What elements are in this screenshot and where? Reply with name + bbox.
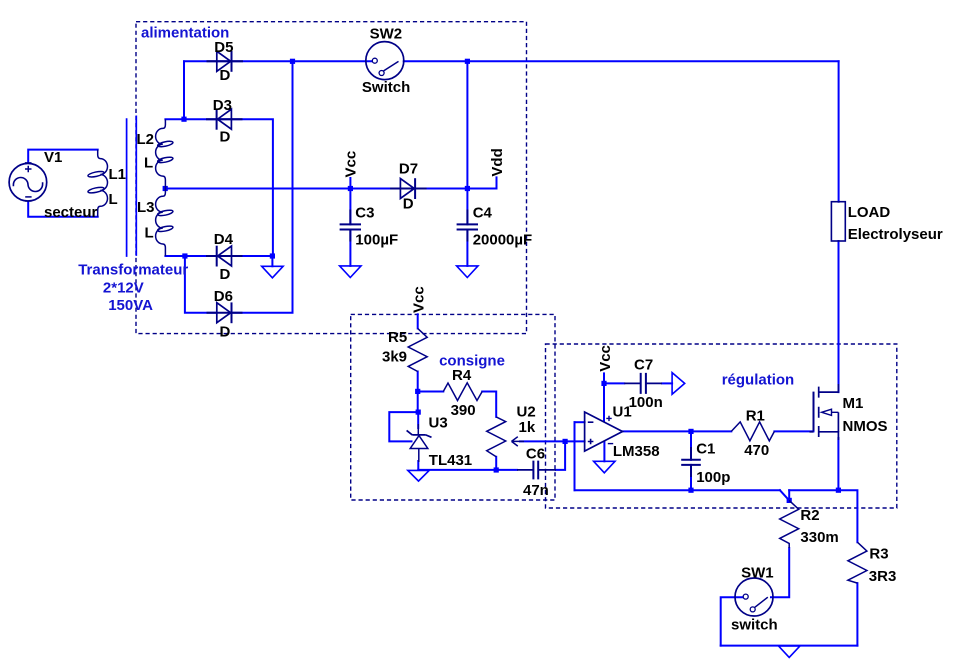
wire R5 bottom to node	[417, 372, 419, 392]
ground below U1	[594, 461, 615, 473]
svg-text:L3: L3	[137, 199, 155, 216]
wire wiper to plus input	[520, 440, 585, 442]
junction D3/D4 ground node	[270, 253, 275, 258]
capacitor C1	[681, 447, 701, 477]
svg-text:L: L	[109, 191, 118, 208]
wire C6 right	[556, 441, 565, 470]
wire LOAD top	[838, 61, 840, 201]
box alimentation	[136, 22, 527, 334]
switch SW1	[735, 578, 773, 616]
voltage source V1	[9, 163, 47, 201]
svg-text:R5: R5	[388, 329, 407, 346]
wire D3 anode down	[231, 119, 273, 256]
diode D3	[206, 109, 243, 130]
wire V1 bottom	[28, 202, 98, 217]
svg-text:Vcc: Vcc	[597, 345, 614, 372]
capacitor C4	[457, 210, 478, 242]
junction R5/R4 node	[415, 389, 420, 394]
svg-text:LM358: LM358	[613, 443, 660, 460]
capacitor C3	[340, 210, 361, 242]
svg-text:100n: 100n	[629, 394, 663, 411]
resistor R5	[408, 328, 427, 371]
svg-text:C3: C3	[355, 204, 374, 221]
svg-text:D5: D5	[214, 39, 233, 56]
svg-text:M1: M1	[843, 395, 864, 412]
junction Vdd node	[465, 186, 470, 191]
diode D7	[390, 178, 427, 199]
wire minus input stub	[575, 421, 585, 423]
junction TL431 cathode node	[416, 410, 421, 415]
inductor L1	[98, 150, 108, 217]
wire C3 bottom lead	[349, 230, 351, 266]
wire transformer core line 2	[135, 116, 137, 255]
wire R2 bottom	[771, 548, 789, 597]
ground below D3/D4 node	[262, 266, 283, 278]
junction R2 top node	[787, 498, 792, 503]
svg-text:D: D	[220, 129, 231, 146]
svg-text:U2: U2	[517, 404, 536, 421]
LOAD resistor body	[831, 202, 845, 241]
box regulation	[546, 344, 897, 508]
svg-text:L2: L2	[137, 131, 155, 148]
svg-text:Vcc: Vcc	[343, 151, 360, 178]
svg-text:Transformateur: Transformateur	[78, 262, 188, 279]
junction output C1 node	[688, 429, 693, 434]
dashed group boxes	[136, 22, 897, 508]
wire C4 bottom lead	[466, 230, 468, 266]
wire D7 to Vdd node	[416, 188, 497, 190]
svg-text:D: D	[220, 67, 231, 84]
wire M1 source down	[837, 438, 839, 490]
junction top rail SW2 out	[465, 59, 470, 64]
junction C1 bottom node	[688, 488, 693, 493]
junction Vcc U1 node	[601, 381, 606, 386]
svg-text:R1: R1	[746, 407, 765, 424]
wire C7 right to ground	[662, 382, 672, 384]
wire TL431 cathode	[417, 412, 419, 428]
ground right of C7 (sideways)	[672, 373, 685, 395]
svg-text:1k: 1k	[519, 419, 536, 436]
junction L3/D4/D6 node	[182, 253, 187, 258]
svg-text:SW2: SW2	[370, 26, 403, 43]
diode D4	[206, 246, 243, 267]
MOSFET M1	[810, 384, 839, 440]
wire node to TL431 node	[417, 392, 419, 413]
wire SW2 out down to Vdd rail	[466, 61, 468, 188]
svg-text:330m: 330m	[800, 529, 838, 546]
capacitor C7	[624, 373, 662, 394]
svg-text:2*12V: 2*12V	[103, 280, 144, 297]
svg-text:D4: D4	[214, 231, 234, 248]
wire SW1 left	[721, 597, 743, 645]
wire R4 to U2 top	[482, 392, 496, 417]
wire source rail to R3 corner	[789, 490, 857, 542]
wire bottom regulation rail	[575, 489, 780, 491]
wire LOAD bottom to M1 drain	[838, 241, 840, 392]
wire C1 bottom lead	[690, 465, 692, 490]
wire V1 top	[28, 150, 98, 163]
resistor R1	[731, 422, 774, 441]
wire C7 left	[604, 382, 624, 384]
wire center tap rail	[165, 188, 350, 190]
junction M1 source node	[836, 488, 841, 493]
svg-text:C1: C1	[696, 441, 715, 458]
svg-text:alimentation: alimentation	[141, 24, 229, 41]
svg-text:100p: 100p	[696, 469, 730, 486]
svg-text:SW1: SW1	[741, 565, 774, 582]
svg-text:390: 390	[451, 402, 476, 419]
resistor R4	[443, 383, 482, 401]
svg-text:Switch: Switch	[362, 79, 410, 96]
svg-text:secteur: secteur	[44, 204, 98, 221]
wire C1 top lead	[690, 431, 692, 459]
wire D6 cathode riser	[232, 61, 293, 312]
wire Vcc rail to D7	[350, 188, 400, 190]
svg-text:100µF: 100µF	[355, 232, 398, 249]
svg-text:TL431: TL431	[429, 452, 472, 469]
svg-text:D: D	[220, 324, 231, 341]
wire C4 top lead	[466, 189, 468, 225]
svg-text:C6: C6	[526, 445, 545, 462]
wire diagonal to R2	[780, 490, 789, 500]
svg-text:R2: R2	[800, 507, 819, 524]
wire feedback down	[574, 422, 576, 490]
junction top rail D5/D6	[290, 59, 295, 64]
svg-text:U3: U3	[429, 415, 448, 432]
svg-text:D7: D7	[399, 161, 418, 178]
wire R1 to M1 gate	[774, 430, 813, 432]
svg-text:L: L	[145, 225, 154, 242]
svg-text:47n: 47n	[523, 482, 549, 499]
GROUND symbols	[262, 266, 800, 658]
svg-text:L1: L1	[109, 166, 127, 183]
wire R3 bottom	[856, 583, 858, 646]
svg-text:NMOS: NMOS	[843, 418, 888, 435]
wire bottom consigne rail	[418, 469, 517, 471]
potentiometer U2	[487, 417, 524, 457]
svg-text:régulation: régulation	[722, 371, 795, 388]
svg-text:LOAD: LOAD	[848, 204, 891, 221]
svg-text:C7: C7	[634, 356, 653, 373]
ground below C4	[457, 266, 478, 278]
wire U1 output to R1	[623, 430, 732, 432]
diode D6	[207, 302, 243, 323]
wire Vcc stub U1	[603, 373, 605, 383]
resistor R2	[780, 500, 799, 548]
inductor L2	[156, 119, 166, 188]
wire Vcc stub above R5	[417, 314, 419, 328]
diode D5	[207, 51, 244, 72]
svg-text:3R3: 3R3	[869, 568, 897, 585]
wire D4 anode to ground node	[232, 256, 273, 266]
op-amp U1	[585, 412, 623, 451]
svg-text:20000µF: 20000µF	[473, 232, 533, 249]
wire U3 feedback loop	[389, 412, 418, 441]
wire top rail right (SW2 to LOAD)	[404, 60, 839, 62]
inductor L3	[156, 189, 166, 256]
svg-text:V1: V1	[44, 149, 62, 166]
svg-text:3k9: 3k9	[382, 348, 407, 365]
svg-text:consigne: consigne	[439, 353, 505, 370]
wire U1 V+ pin	[603, 383, 605, 421]
TL431 U3	[407, 424, 432, 462]
ground on bottom loop wire	[779, 646, 801, 658]
svg-text:D6: D6	[214, 288, 233, 305]
svg-text:Vdd: Vdd	[489, 148, 506, 176]
capacitor C6	[517, 461, 556, 480]
wire Vdd flag stub	[496, 177, 498, 188]
svg-text:D: D	[403, 196, 414, 213]
junction L2/D3/D5 node	[181, 117, 186, 122]
junction wiper node	[563, 439, 568, 444]
wire D6 row left	[185, 256, 217, 313]
wire U1 V- pin	[603, 442, 605, 462]
svg-text:Vcc: Vcc	[411, 286, 428, 313]
wire L3 bottom	[165, 255, 185, 257]
svg-text:C4: C4	[473, 204, 493, 221]
wire R4 row	[418, 391, 444, 393]
wire C3 top lead	[349, 189, 351, 225]
wire bottom loop	[721, 645, 858, 647]
ground below TL431	[408, 470, 429, 481]
wire node to top rail	[183, 61, 185, 119]
wire U2 bottom	[495, 457, 497, 470]
wire D4 row	[185, 255, 232, 257]
junction Vcc node	[348, 186, 353, 191]
wire D3 row	[184, 118, 231, 120]
wire Vcc flag stub	[349, 178, 351, 189]
svg-text:D: D	[220, 266, 231, 283]
svg-text:Electrolyseur: Electrolyseur	[848, 226, 943, 243]
svg-text:R4: R4	[452, 367, 472, 384]
svg-text:150VA: 150VA	[108, 297, 153, 314]
resistor R3	[848, 542, 867, 583]
wire TL431 anode to ground rail	[417, 461, 419, 470]
wire R2 node riser	[788, 490, 790, 500]
wire top rail left (to SW2)	[184, 60, 372, 62]
junction C6/U2 node	[494, 467, 499, 472]
junction center tap	[163, 186, 168, 191]
ground below C3	[340, 266, 361, 278]
svg-text:R3: R3	[869, 546, 888, 563]
svg-text:switch: switch	[731, 617, 778, 634]
svg-text:470: 470	[744, 442, 769, 459]
svg-text:L: L	[144, 155, 153, 172]
switch SW2	[366, 42, 404, 80]
wire transformer core line 1	[126, 119, 128, 256]
svg-text:D3: D3	[213, 97, 232, 114]
box consigne	[351, 314, 555, 500]
wire L2 top to node	[165, 118, 184, 120]
